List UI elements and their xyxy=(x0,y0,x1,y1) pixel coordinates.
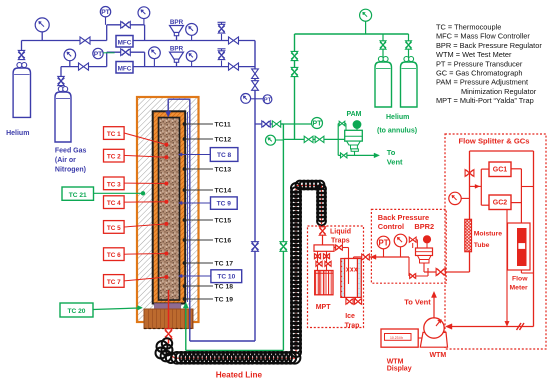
svg-text:PAM: PAM xyxy=(346,111,361,118)
svg-text:(Air or: (Air or xyxy=(55,157,76,164)
svg-text:TC 4: TC 4 xyxy=(107,200,121,207)
svg-text:TC 2: TC 2 xyxy=(107,154,121,161)
svg-text:GC2: GC2 xyxy=(493,200,508,207)
svg-text:TC11: TC11 xyxy=(215,122,231,129)
svg-text:Minimization Regulator: Minimization Regulator xyxy=(461,87,537,96)
svg-text:(to annulus): (to annulus) xyxy=(377,128,417,135)
svg-text:Traps: Traps xyxy=(331,238,350,245)
svg-text:TC 6: TC 6 xyxy=(107,252,121,259)
svg-text:TC 20: TC 20 xyxy=(68,308,86,315)
svg-text:To: To xyxy=(387,148,396,157)
svg-text:TC 21: TC 21 xyxy=(69,192,87,199)
svg-text:TC 10: TC 10 xyxy=(217,274,235,281)
svg-text:TC12: TC12 xyxy=(215,137,232,144)
svg-text:MPT: MPT xyxy=(316,304,332,311)
svg-text:TC 19: TC 19 xyxy=(215,297,234,304)
svg-text:TC 8: TC 8 xyxy=(217,152,232,159)
svg-text:BPR = Back Pressure Regulator: BPR = Back Pressure Regulator xyxy=(436,41,542,50)
svg-text:Feed Gas: Feed Gas xyxy=(55,148,87,155)
svg-text:To Vent: To Vent xyxy=(404,298,431,307)
svg-text:10.23 l/h: 10.23 l/h xyxy=(390,336,403,340)
svg-text:Display: Display xyxy=(387,365,412,372)
svg-text:Flow: Flow xyxy=(512,276,528,283)
svg-text:MPT = Multi-Port “Yalda” Trap: MPT = Multi-Port “Yalda” Trap xyxy=(436,96,534,105)
svg-text:Meter: Meter xyxy=(510,285,528,292)
svg-text:TC15: TC15 xyxy=(215,218,232,225)
svg-text:TC 7: TC 7 xyxy=(107,279,121,286)
svg-text:PT: PT xyxy=(264,97,272,103)
svg-text:TC14: TC14 xyxy=(215,188,232,195)
svg-text:WTM = Wet Test Meter: WTM = Wet Test Meter xyxy=(436,50,512,59)
svg-text:GC = Gas Chromatograph: GC = Gas Chromatograph xyxy=(436,69,522,78)
svg-text:Vent: Vent xyxy=(387,157,403,166)
svg-text:PT = Pressure Transducer: PT = Pressure Transducer xyxy=(436,59,523,68)
svg-text:TC 3: TC 3 xyxy=(107,181,121,188)
svg-text:Helium: Helium xyxy=(386,114,409,121)
svg-text:Flow Splitter & GCs: Flow Splitter & GCs xyxy=(459,137,530,146)
svg-text:MFC = Mass Flow Controller: MFC = Mass Flow Controller xyxy=(436,32,530,41)
svg-text:TC 1: TC 1 xyxy=(107,131,121,138)
svg-text:Tube: Tube xyxy=(474,242,490,249)
svg-text:GC1: GC1 xyxy=(493,167,508,174)
svg-text:TC16: TC16 xyxy=(215,238,232,245)
svg-text:PAM = Pressure Adjustment: PAM = Pressure Adjustment xyxy=(436,78,528,87)
svg-text:WTM: WTM xyxy=(430,352,447,359)
svg-text:PT: PT xyxy=(313,121,323,128)
svg-text:MFC: MFC xyxy=(118,65,132,72)
svg-text:Nitrogen): Nitrogen) xyxy=(55,167,86,174)
svg-text:Trap: Trap xyxy=(345,323,360,330)
svg-text:BPR2: BPR2 xyxy=(414,222,434,231)
svg-text:Heated Line: Heated Line xyxy=(216,371,263,380)
svg-text:TC 9: TC 9 xyxy=(217,201,232,208)
svg-text:PT: PT xyxy=(379,238,389,247)
svg-text:Control: Control xyxy=(378,222,404,231)
svg-text:TC 18: TC 18 xyxy=(215,284,234,291)
svg-text:Moisture: Moisture xyxy=(474,231,503,238)
svg-text:Ice: Ice xyxy=(345,313,355,320)
svg-text:TC = Thermocouple: TC = Thermocouple xyxy=(436,23,501,32)
svg-text:TC13: TC13 xyxy=(215,167,232,174)
svg-text:PT: PT xyxy=(94,51,103,58)
svg-text:TC 5: TC 5 xyxy=(107,225,121,232)
svg-text:MFC: MFC xyxy=(118,39,132,46)
svg-text:Liquid: Liquid xyxy=(330,229,351,236)
svg-text:TC 17: TC 17 xyxy=(215,261,234,268)
svg-text:Helium: Helium xyxy=(6,130,29,137)
svg-text:PT: PT xyxy=(101,9,110,16)
svg-text:Back Pressure: Back Pressure xyxy=(378,213,429,222)
